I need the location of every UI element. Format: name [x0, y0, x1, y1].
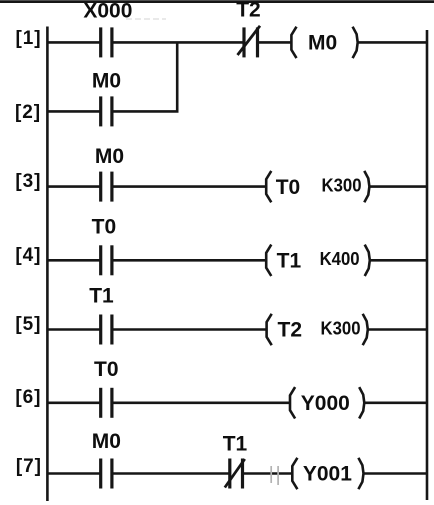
svg-text:M0: M0	[92, 430, 121, 453]
svg-text:T1: T1	[223, 433, 248, 456]
svg-text:T0: T0	[276, 176, 301, 199]
contact T2 NC slash	[238, 26, 261, 55]
wire rung2 rail to contact M0	[47, 110, 100, 113]
contact X000 bars	[99, 27, 102, 57]
coil Y000 left paren	[290, 387, 295, 418]
svg-text:M0: M0	[92, 70, 121, 93]
wire rung4 contact T0 to coil T1	[113, 259, 266, 262]
contact T0 rung4 bars	[99, 245, 102, 275]
coil M0 left paren	[291, 27, 296, 58]
svg-text:K400: K400	[320, 248, 360, 269]
contact T1 rung5 bars	[99, 315, 102, 345]
coil T2 right paren	[363, 314, 368, 345]
contact M0 rung3 bars	[99, 172, 102, 202]
wire rung7 rail to contact M0	[47, 472, 100, 475]
wire rung6 contact T0 to coil Y000	[113, 401, 290, 404]
svg-text:[3]: [3]	[15, 171, 41, 192]
coil T0 right paren	[364, 171, 369, 202]
svg-text:T0: T0	[92, 216, 117, 239]
svg-text:X000: X000	[83, 0, 132, 23]
svg-text:Y000: Y000	[301, 392, 350, 415]
svg-text:[1]: [1]	[16, 28, 42, 49]
coil T1 right paren	[365, 245, 370, 276]
wire rung7 contact T1 to coil Y001	[244, 472, 292, 475]
coil Y001 left paren	[292, 458, 297, 489]
contact M0 rung7 bars	[99, 459, 102, 489]
wire rung1 coil M0 to right rail	[358, 41, 427, 44]
contact T1 NC slash rung7	[225, 459, 245, 488]
top border line	[0, 0, 434, 3]
svg-text:[2]: [2]	[15, 102, 41, 123]
contact T2 (NC) bars	[242, 27, 245, 57]
svg-text:[6]: [6]	[15, 387, 41, 408]
svg-text:T2: T2	[236, 0, 261, 22]
wire rung1 contact X000 to contact T2	[113, 41, 243, 44]
coil M0 right paren	[353, 27, 358, 58]
svg-text:M0: M0	[308, 32, 337, 55]
coil T1 left paren	[266, 245, 271, 276]
wire rung3 coil T0 to right rail	[369, 185, 427, 188]
wire rung5 coil T2 to right rail	[368, 328, 427, 331]
wire rung4 coil T1 to right rail	[370, 259, 427, 262]
svg-text:K300: K300	[321, 317, 361, 338]
wire rung3 contact M0 to coil T0	[113, 185, 266, 188]
wire rung6 rail to contact T0	[47, 401, 100, 404]
wire rung2 contact M0 to branch	[113, 110, 178, 113]
svg-text:K300: K300	[322, 174, 362, 195]
wire rung3 rail to contact M0	[47, 185, 100, 188]
wire rung7 coil Y001 to right rail	[364, 472, 428, 475]
svg-text:T1: T1	[89, 285, 114, 308]
svg-text:M0: M0	[95, 145, 124, 168]
coil Y000 right paren	[359, 387, 364, 418]
left power rail	[46, 27, 49, 502]
svg-text:[5]: [5]	[15, 314, 41, 335]
coil T0 left paren	[266, 171, 271, 202]
coil T2 left paren	[267, 314, 272, 345]
contact M0 rung2 bars	[99, 96, 102, 126]
svg-text:T2: T2	[278, 319, 303, 342]
wire rung1 rail to contact X000	[47, 41, 100, 44]
svg-text:T0: T0	[94, 358, 119, 381]
wire rung5 rail to contact T1	[47, 328, 100, 331]
contact T0 rung6 bars	[99, 388, 102, 418]
coil Y001 right paren	[358, 458, 363, 489]
svg-text:[4]: [4]	[15, 245, 41, 266]
wire branch vertical rung1-rung2	[176, 42, 179, 111]
svg-text:[7]: [7]	[16, 456, 42, 477]
faint artifact dashes right of X000	[126, 18, 166, 20]
wire rung5 contact T1 to coil T2	[113, 328, 266, 331]
right power rail	[426, 30, 429, 500]
svg-text:Y001: Y001	[303, 463, 352, 486]
ghost contact marks rung7	[270, 466, 272, 483]
svg-text:T1: T1	[277, 250, 302, 273]
wire rung1 contact T2 to coil M0	[259, 41, 292, 44]
wire rung7 contact M0 to contact T1	[113, 472, 228, 475]
wire rung4 rail to contact T0	[47, 259, 100, 262]
wire rung6 coil Y000 to right rail	[364, 401, 427, 404]
contact T1 (NC) rung7 bars	[228, 459, 231, 489]
